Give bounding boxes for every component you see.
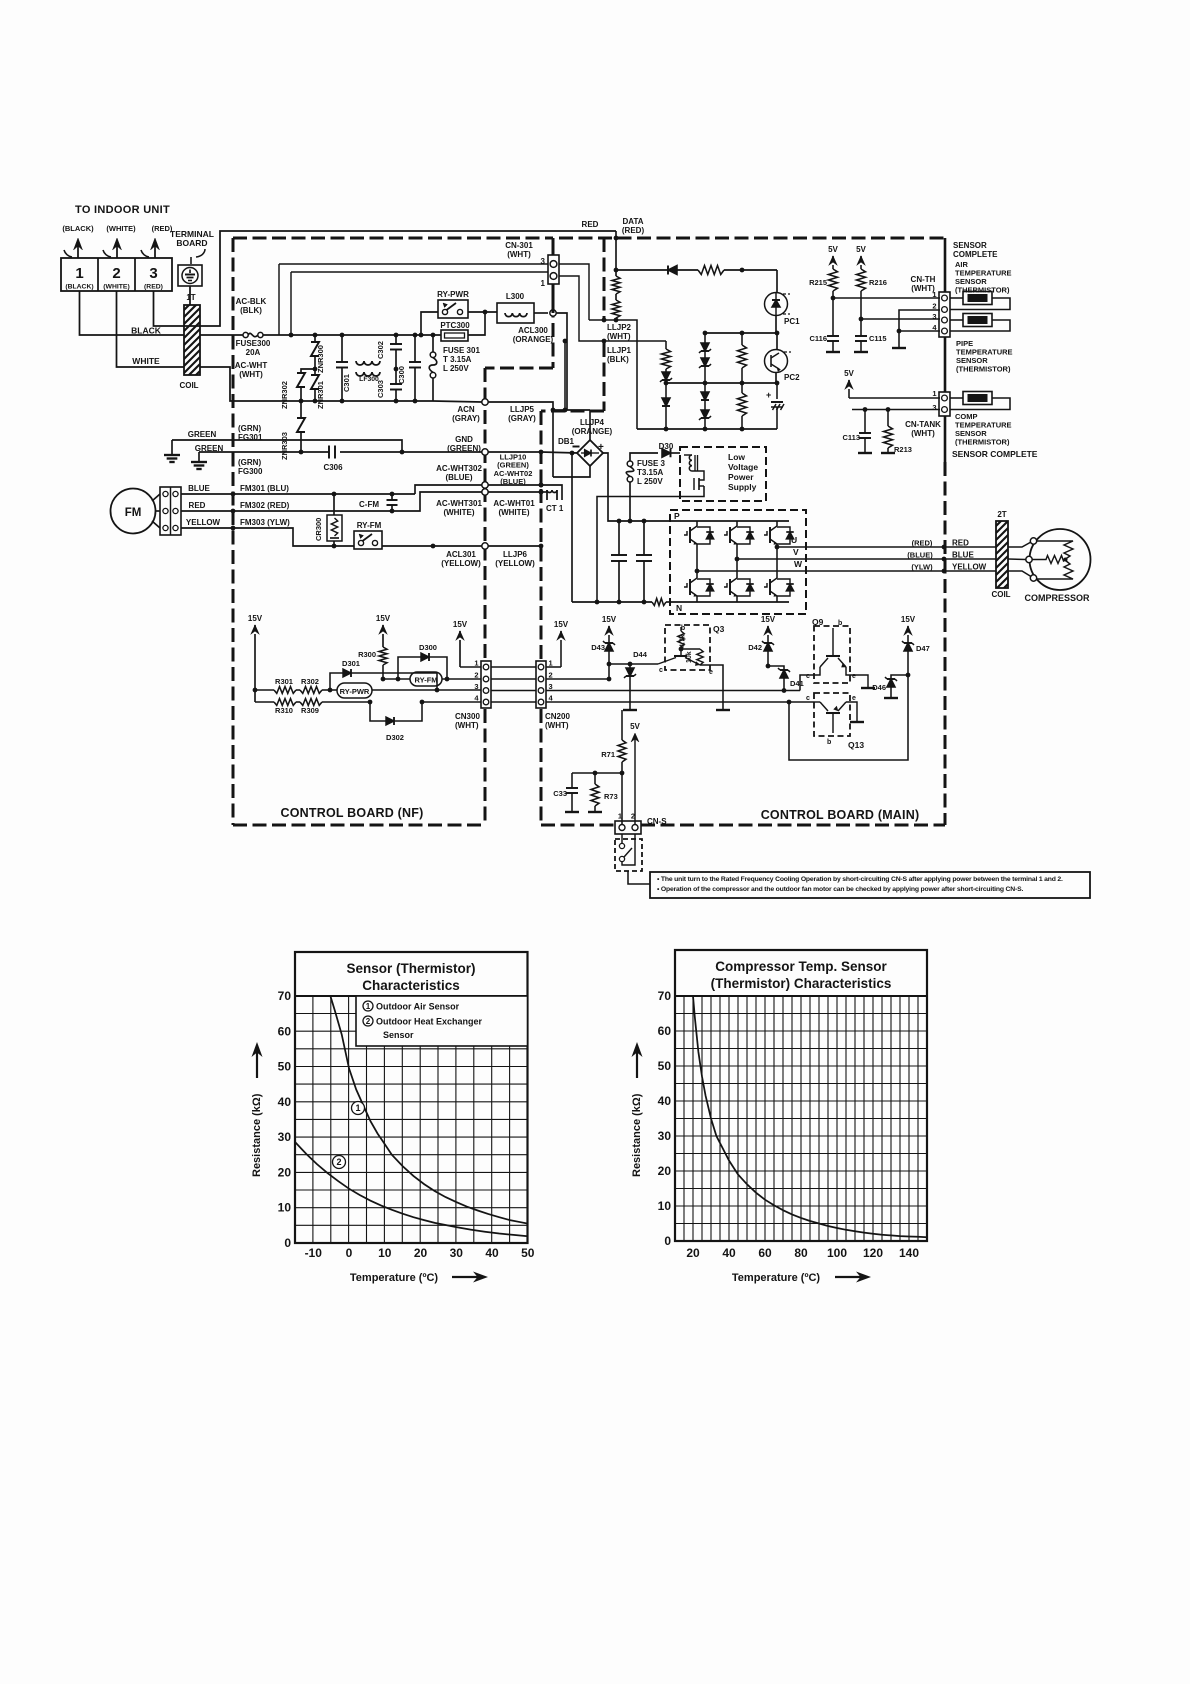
curve compressor temp sensor — [693, 996, 927, 1237]
svg-text:Q13: Q13 — [848, 740, 864, 750]
arrow to indoor unit — [116, 243, 118, 258]
svg-text:70: 70 — [658, 989, 672, 1003]
svg-text:(GRAY): (GRAY) — [508, 414, 536, 423]
svg-text:RY-PWR: RY-PWR — [340, 687, 370, 696]
svg-text:2: 2 — [932, 302, 936, 311]
transistor Q3 dashed box — [665, 625, 710, 670]
wire Q3 emitter down — [700, 665, 723, 710]
svg-text:W: W — [794, 559, 803, 569]
svg-text:80: 80 — [794, 1246, 808, 1260]
svg-text:15V: 15V — [901, 615, 916, 624]
svg-text:AC-WHT301: AC-WHT301 — [436, 499, 482, 508]
svg-text:b: b — [838, 620, 842, 627]
svg-text:COMPLETE: COMPLETE — [953, 250, 998, 259]
diode chain x705 lower — [704, 383, 706, 392]
svg-text:4: 4 — [549, 694, 554, 703]
svg-text:2T: 2T — [997, 510, 1006, 519]
svg-text:GND: GND — [455, 435, 473, 444]
current transformer CT1 — [539, 483, 544, 488]
svg-text:• The unit turn to the Rated F: • The unit turn to the Rated Frequency C… — [657, 876, 1063, 883]
transformer 1T hatched coil — [184, 305, 200, 375]
svg-text:C306: C306 — [323, 463, 343, 472]
capacitor C301 — [340, 333, 345, 338]
wire RED from terminal 3 — [154, 231, 617, 326]
svg-text:40: 40 — [278, 1095, 292, 1109]
svg-text:20: 20 — [414, 1246, 428, 1260]
ground FG300 — [198, 452, 200, 462]
terminal board earth symbol — [178, 265, 202, 286]
IGBT upper leg x777 — [776, 521, 778, 526]
svg-text:(RED): (RED) — [912, 539, 933, 548]
wire green FG301 — [172, 440, 402, 452]
wire LVPS return to N rail — [597, 486, 704, 602]
chart left gridlines — [295, 996, 528, 1243]
svg-text:0: 0 — [284, 1236, 291, 1250]
svg-text:SENSOR: SENSOR — [953, 241, 987, 250]
wire LLJP2 to bottom rail — [616, 320, 637, 429]
svg-text:YELLOW: YELLOW — [186, 518, 221, 527]
svg-text:(WHITE): (WHITE) — [103, 284, 129, 291]
svg-text:e: e — [852, 695, 856, 702]
svg-text:60: 60 — [278, 1024, 292, 1038]
svg-text:WHITE: WHITE — [132, 356, 160, 366]
curve outdoor air sensor 1 — [330, 996, 527, 1224]
svg-text:V: V — [793, 547, 799, 557]
svg-text:COIL: COIL — [991, 590, 1010, 599]
svg-text:(Thermistor) Characteristics: (Thermistor) Characteristics — [711, 976, 892, 991]
wire DB1 plus to P rail — [602, 453, 670, 521]
svg-text:(WHT): (WHT) — [455, 721, 479, 730]
capacitor C303 — [395, 369, 397, 384]
transistor Q3 symbol — [680, 649, 682, 656]
wire AC white main — [300, 400, 433, 402]
wire CN-301 pin3 to black wire — [278, 264, 280, 335]
svg-text:ACL301: ACL301 — [446, 550, 476, 559]
svg-text:15V: 15V — [248, 614, 263, 623]
svg-text:140: 140 — [899, 1246, 919, 1260]
wire R71 top — [621, 710, 623, 729]
svg-text:3: 3 — [549, 682, 553, 691]
svg-text:AC-WHT302: AC-WHT302 — [436, 464, 482, 473]
wire LLJP2 feed — [614, 268, 619, 273]
node LLJP2 — [602, 318, 607, 323]
chart right y axis arrow — [636, 1052, 638, 1078]
motor compressor — [1030, 529, 1091, 590]
chart left legend box — [356, 996, 528, 1046]
fuse FUSE3 and diode D30 — [629, 482, 631, 521]
resistor on top wire — [698, 266, 724, 275]
svg-text:5V: 5V — [828, 245, 838, 254]
svg-text:(BLACK): (BLACK) — [65, 284, 93, 291]
snubber CR300 — [332, 492, 337, 497]
fuse FUSE301 in filter — [431, 333, 436, 338]
svg-text:CN-TH: CN-TH — [911, 275, 936, 284]
capacitor C302 — [394, 333, 399, 338]
chart sensor thermistor characteristics box — [295, 952, 528, 1243]
svg-text:RED: RED — [189, 501, 206, 510]
resistor x742 lower — [741, 383, 743, 393]
svg-text:AC-WHT01: AC-WHT01 — [493, 499, 535, 508]
svg-text:DB1: DB1 — [558, 437, 575, 446]
IGBT upper leg x737 — [736, 521, 738, 526]
optocoupler PC1 — [776, 270, 778, 292]
svg-text:BLUE: BLUE — [188, 484, 210, 493]
svg-text:Supply: Supply — [728, 482, 757, 492]
wire to RY-FM — [383, 678, 410, 680]
svg-text:(WHT): (WHT) — [507, 250, 531, 259]
wire to note box — [628, 871, 650, 884]
svg-text:C303: C303 — [376, 380, 385, 398]
diode D-in on top wire — [616, 269, 668, 271]
svg-text:10: 10 — [658, 1199, 672, 1213]
svg-text:C-FM: C-FM — [359, 500, 379, 509]
svg-text:L 250V: L 250V — [637, 477, 663, 486]
svg-text:3: 3 — [541, 257, 546, 266]
svg-text:(BLUE): (BLUE) — [907, 551, 933, 560]
svg-text:Compressor Temp. Sensor: Compressor Temp. Sensor — [715, 959, 887, 974]
wire WHITE from terminal 2 — [117, 291, 185, 367]
wires CN300 to CN200 — [491, 666, 536, 668]
svg-text:R301: R301 — [275, 677, 293, 686]
control board MAIN dashed outline — [559, 237, 945, 240]
ground FG301 — [171, 440, 173, 455]
transistor Q13 symbol — [832, 713, 834, 733]
wire BLACK through coil to fuse — [200, 334, 243, 336]
IGBT lower leg x777 — [776, 577, 778, 579]
svg-text:3: 3 — [932, 403, 936, 412]
wires to 2T coil — [944, 546, 996, 548]
P rail inside inverter — [670, 520, 789, 522]
compressor winding Y — [1037, 541, 1073, 559]
svg-text:D44: D44 — [633, 650, 648, 659]
svg-text:30: 30 — [658, 1129, 672, 1143]
svg-text:(BLK): (BLK) — [240, 306, 262, 315]
svg-text:1: 1 — [474, 659, 478, 668]
wire pin4 bus to Q13 — [546, 701, 789, 703]
svg-text:70: 70 — [278, 989, 292, 1003]
svg-text:C301: C301 — [342, 374, 351, 392]
svg-text:(WHITE): (WHITE) — [106, 224, 136, 233]
svg-text:1: 1 — [932, 389, 936, 398]
inverter module dashed box — [670, 510, 806, 614]
svg-text:b: b — [827, 739, 831, 746]
svg-text:20A: 20A — [246, 348, 261, 357]
svg-text:LLJP4: LLJP4 — [580, 418, 605, 427]
wire comp sensor pin1 — [849, 397, 940, 399]
svg-text:C300: C300 — [397, 366, 406, 384]
svg-text:R310: R310 — [275, 706, 293, 715]
svg-text:10: 10 — [278, 1201, 292, 1215]
curve label 1 — [352, 1102, 365, 1115]
svg-text:1: 1 — [541, 279, 546, 288]
svg-text:SENSOR COMPLETE: SENSOR COMPLETE — [952, 449, 1038, 459]
svg-text:(WHT): (WHT) — [545, 721, 569, 730]
chart left y axis arrow — [256, 1052, 258, 1078]
open jumper circles on NF edge — [482, 399, 488, 405]
varistor ZNR300 — [313, 333, 318, 338]
svg-text:-10: -10 — [305, 1246, 323, 1260]
svg-text:CN-TANK: CN-TANK — [905, 420, 941, 429]
svg-text:CN-301: CN-301 — [505, 241, 533, 250]
svg-text:AC-BLK: AC-BLK — [236, 297, 267, 306]
svg-text:R302: R302 — [301, 677, 319, 686]
svg-text:C116: C116 — [809, 334, 827, 343]
svg-text:COIL: COIL — [179, 381, 198, 390]
wire green to DB1 left — [541, 452, 578, 453]
svg-text:D41: D41 — [790, 679, 804, 688]
svg-text:1: 1 — [932, 290, 936, 299]
svg-text:FUSE 301: FUSE 301 — [443, 346, 480, 355]
svg-text:CN300: CN300 — [455, 712, 480, 721]
wires FM to connector — [156, 510, 161, 512]
capacitor C306 — [328, 446, 330, 459]
svg-text:50: 50 — [521, 1246, 535, 1260]
svg-text:20: 20 — [278, 1165, 292, 1179]
svg-text:(GRAY): (GRAY) — [452, 414, 480, 423]
svg-text:Sensor (Thermistor): Sensor (Thermistor) — [346, 961, 475, 976]
control board NF dashed outline — [233, 237, 553, 240]
svg-text:c: c — [806, 695, 810, 702]
note box — [650, 872, 1090, 898]
P rail and capacitors — [617, 519, 622, 524]
svg-text:T3.15A: T3.15A — [637, 468, 663, 477]
svg-text:1: 1 — [549, 659, 553, 668]
wire V phase — [737, 558, 944, 560]
svg-text:TO INDOOR UNIT: TO INDOOR UNIT — [75, 204, 170, 216]
wires 2T to compressor — [1008, 542, 1031, 547]
svg-text:3: 3 — [149, 265, 157, 282]
svg-text:60: 60 — [758, 1246, 772, 1260]
svg-text:R300: R300 — [358, 650, 376, 659]
junction dots on MAIN edge — [539, 450, 544, 455]
svg-text:(RED): (RED) — [622, 226, 645, 235]
svg-text:U: U — [791, 535, 797, 545]
svg-text:5V: 5V — [630, 722, 640, 731]
svg-text:10: 10 — [378, 1246, 392, 1260]
svg-text:ZNR300: ZNR300 — [316, 345, 325, 373]
resistor x742 upper — [741, 333, 743, 345]
wire sensor pin2 pin4 ground — [899, 310, 940, 331]
svg-text:(YELLOW): (YELLOW) — [441, 559, 481, 568]
chart right gridlines — [675, 996, 927, 1241]
svg-text:C113: C113 — [842, 433, 860, 442]
svg-text:(WHITE): (WHITE) — [443, 508, 474, 517]
svg-text:D300: D300 — [419, 643, 437, 652]
svg-text:FUSE 3: FUSE 3 — [637, 459, 666, 468]
svg-text:CN-S: CN-S — [647, 817, 667, 826]
svg-text:(THERMISTOR): (THERMISTOR) — [955, 438, 1010, 447]
transformer in LVPS — [689, 455, 692, 471]
svg-text:RY-PWR: RY-PWR — [437, 290, 469, 299]
svg-text:0: 0 — [346, 1246, 353, 1260]
svg-text:2: 2 — [336, 1157, 341, 1167]
svg-text:50: 50 — [658, 1059, 672, 1073]
svg-text:Power: Power — [728, 472, 754, 482]
svg-text:FUSE300: FUSE300 — [236, 339, 271, 348]
wire R309 to CN300 pin4 — [422, 701, 481, 703]
transistor Q9 symbol — [832, 628, 834, 656]
relay coil RY-FM oval — [410, 672, 442, 686]
svg-text:RED: RED — [582, 220, 599, 229]
transistor Q9 dashed box — [814, 626, 850, 683]
relay coil RY-PWR oval — [337, 683, 372, 698]
svg-text:Resistance (kΩ): Resistance (kΩ) — [251, 1093, 263, 1177]
wire earth to 1T coil — [189, 286, 191, 305]
lower drive bus pin3 — [546, 690, 800, 692]
node ACL300 jumper — [550, 310, 556, 316]
svg-text:FM301 (BLU): FM301 (BLU) — [240, 484, 289, 493]
varistor ZNR302 — [301, 369, 315, 373]
svg-text:Q9: Q9 — [812, 617, 824, 627]
svg-text:5V: 5V — [856, 245, 866, 254]
svg-text:FM303 (YLW): FM303 (YLW) — [240, 518, 290, 527]
svg-text:Resistance (kΩ): Resistance (kΩ) — [631, 1093, 643, 1177]
IGBT lower leg x697 — [696, 577, 698, 579]
svg-text:D30: D30 — [659, 442, 674, 451]
IGBT upper leg x697 — [696, 521, 698, 526]
svg-text:1: 1 — [75, 265, 83, 282]
svg-text:Outdoor Air Sensor: Outdoor Air Sensor — [376, 1002, 460, 1012]
svg-text:GREEN: GREEN — [188, 430, 217, 439]
wire FM301 blue — [181, 493, 415, 495]
svg-text:CT 1: CT 1 — [546, 504, 564, 513]
svg-text:ACL300: ACL300 — [518, 326, 548, 335]
svg-text:Temperature (ºC): Temperature (ºC) — [732, 1272, 820, 1284]
svg-text:FG300: FG300 — [238, 467, 263, 476]
electrolytic capacitor on x777 — [776, 383, 778, 399]
svg-text:2: 2 — [112, 265, 120, 282]
wire DB1 minus down to N — [571, 453, 573, 602]
svg-text:120: 120 — [863, 1246, 883, 1260]
line filter LF300 — [356, 361, 380, 365]
svg-text:ZNR301: ZNR301 — [316, 381, 325, 409]
wire Q13 collector emitter — [814, 701, 820, 703]
svg-text:2: 2 — [549, 671, 553, 680]
svg-text:2: 2 — [474, 671, 478, 680]
svg-text:15V: 15V — [376, 614, 391, 623]
svg-text:5V: 5V — [844, 369, 854, 378]
svg-text:R213: R213 — [894, 445, 912, 454]
svg-text:C302: C302 — [376, 341, 385, 359]
svg-text:(WHT): (WHT) — [911, 429, 935, 438]
motor FM fan — [111, 489, 156, 534]
svg-text:(BLK): (BLK) — [607, 355, 629, 364]
optocoupler PC2 — [776, 333, 778, 349]
svg-text:CONTROL BOARD (NF): CONTROL BOARD (NF) — [281, 806, 424, 820]
wire relay branch — [419, 333, 424, 338]
wire gray into DB1 top — [589, 410, 591, 441]
resistor chain x667 — [665, 341, 667, 349]
svg-text:R309: R309 — [301, 706, 319, 715]
svg-text:D47: D47 — [916, 644, 930, 653]
N rail with shunt resistor — [572, 601, 652, 603]
IGBT lower leg x737 — [736, 577, 738, 579]
svg-text:1: 1 — [355, 1103, 360, 1113]
wire LLJP5 LLJP4 gray node — [553, 409, 590, 411]
svg-text:N: N — [676, 603, 682, 613]
svg-text:(BLUE): (BLUE) — [500, 477, 526, 486]
wire 15V to resistors — [255, 689, 274, 691]
wire WHITE through coil into NF board — [200, 367, 300, 401]
svg-text:LLJP5: LLJP5 — [510, 405, 535, 414]
svg-text:L300: L300 — [506, 292, 525, 301]
svg-text:40: 40 — [658, 1094, 672, 1108]
wire RY-PWR to CN300 pin3 — [372, 689, 481, 691]
wire PTC output joins relay output — [468, 312, 485, 335]
transistor Q13 dashed box — [814, 693, 850, 736]
svg-text:RED: RED — [952, 539, 969, 548]
svg-text:15V: 15V — [453, 620, 468, 629]
diode below x667 — [665, 383, 667, 398]
svg-text:D302: D302 — [386, 733, 404, 742]
capacitor filter 2 — [643, 521, 645, 555]
svg-text:Characteristics: Characteristics — [362, 978, 460, 993]
wire ACN gray — [420, 400, 433, 402]
svg-text:LLJP6: LLJP6 — [503, 550, 528, 559]
svg-text:Voltage: Voltage — [728, 462, 758, 472]
svg-text:ZNR303: ZNR303 — [280, 432, 289, 460]
svg-text:RY-FM: RY-FM — [357, 521, 382, 530]
svg-text:FM: FM — [125, 507, 142, 519]
svg-text:R71: R71 — [601, 750, 615, 759]
svg-text:C115: C115 — [869, 334, 887, 343]
svg-text:1: 1 — [618, 812, 622, 821]
svg-text:C33: C33 — [553, 789, 567, 798]
wire AC black main — [263, 334, 441, 336]
svg-text:c: c — [806, 673, 810, 680]
wire FM303 yellow — [181, 528, 354, 546]
wire ACL300 node down — [552, 410, 554, 477]
svg-text:1: 1 — [366, 1002, 371, 1011]
svg-text:Low: Low — [728, 452, 745, 462]
svg-text:20: 20 — [658, 1164, 672, 1178]
svg-text:LLJP1: LLJP1 — [607, 346, 632, 355]
svg-text:4.7k: 4.7k — [680, 634, 687, 648]
arrow to indoor unit — [77, 243, 79, 258]
wire CN200 pin2 jog up to bus — [546, 678, 609, 680]
connector CN300 — [481, 661, 491, 708]
wire green FG300 main — [199, 451, 329, 453]
svg-text:BOARD: BOARD — [176, 238, 207, 248]
svg-text:LLJP2: LLJP2 — [607, 323, 632, 332]
svg-text:CONTROL BOARD (MAIN): CONTROL BOARD (MAIN) — [761, 808, 920, 822]
wire CN-301 pin1 to LLJP1 — [559, 276, 666, 341]
curve outdoor heat exchanger 2 — [295, 1142, 527, 1236]
svg-text:(WHT): (WHT) — [607, 332, 631, 341]
svg-text:PC2: PC2 — [784, 373, 800, 382]
svg-text:D42: D42 — [748, 643, 762, 652]
junction C33 R73 — [620, 771, 625, 776]
svg-text:L 250V: L 250V — [443, 364, 469, 373]
N rail inside inverter — [670, 601, 789, 603]
wire BLACK from terminal 1 — [80, 291, 185, 335]
svg-text:D43: D43 — [591, 643, 605, 652]
wire FM302 jog — [413, 492, 415, 511]
connector CN200 — [536, 661, 546, 708]
svg-text:D301: D301 — [342, 659, 360, 668]
fuse FUSE300 — [243, 332, 248, 337]
svg-text:3: 3 — [932, 312, 936, 321]
svg-text:P: P — [674, 511, 680, 521]
wire CN-301 pin3 to LLJP2 — [559, 264, 589, 320]
svg-text:(THERMISTOR): (THERMISTOR) — [956, 365, 1011, 374]
wire LLJP1 to LLJP4 — [564, 341, 566, 410]
wire DB1 bottom vertex — [553, 466, 590, 477]
svg-text:Outdoor Heat Exchanger: Outdoor Heat Exchanger — [376, 1017, 483, 1027]
diode D302 loop — [368, 700, 373, 705]
mosfet in LVPS — [698, 478, 700, 490]
svg-text:R73: R73 — [604, 792, 618, 801]
